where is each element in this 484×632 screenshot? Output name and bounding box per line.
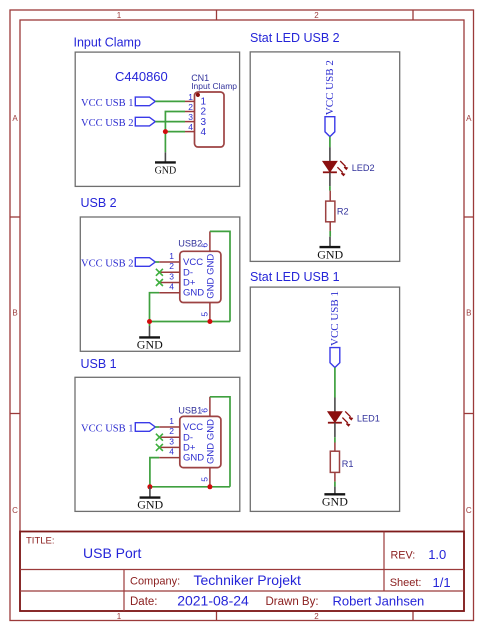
svg-text:4: 4 (169, 282, 174, 292)
svg-text:GND: GND (205, 443, 216, 464)
frame tick bottom x=216.5 (216, 611, 218, 621)
svg-text:1: 1 (188, 92, 193, 102)
wire LED1 to R1 (334, 437, 336, 442)
svg-text:1: 1 (169, 416, 174, 426)
svg-text:1: 1 (169, 251, 174, 261)
connector USB1 body (180, 416, 221, 467)
connector CN1 body (195, 92, 225, 147)
svg-text:1/1: 1/1 (433, 575, 451, 590)
USB2 pin 6 stub top (209, 231, 211, 251)
svg-text:USB2: USB2 (178, 238, 202, 248)
svg-text:USB 2: USB 2 (81, 196, 117, 210)
svg-text:2: 2 (314, 11, 319, 20)
svg-text:GND: GND (155, 166, 177, 177)
no-connect X USB1 pin3 (156, 444, 163, 451)
svg-text:A: A (12, 114, 18, 123)
svg-text:TITLE:: TITLE: (26, 536, 55, 547)
wire label1 to CN1 pin1 (155, 100, 185, 102)
svg-text:A: A (466, 114, 472, 123)
svg-text:GND: GND (322, 495, 348, 509)
USB1 pin 2 stub (159, 436, 180, 438)
R1 top pin (334, 443, 336, 452)
USB2 pin 4 stub (159, 292, 180, 294)
svg-text:1: 1 (117, 612, 122, 621)
junction USB1 gnd left (147, 484, 152, 489)
USB1 pin 1 stub (159, 426, 180, 428)
title block divider row2/row3 (20, 590, 464, 592)
hierarchical label VCC USB 2 (input clamp) (81, 117, 155, 129)
svg-text:3: 3 (188, 112, 193, 122)
svg-text:GND: GND (137, 498, 163, 512)
frame tick top x=413 (412, 10, 414, 20)
wire USB2 bottom bus (150, 321, 231, 323)
svg-text:GND: GND (183, 288, 204, 299)
wire label to USB2 pin1 (155, 261, 159, 263)
R1 bottom pin (334, 472, 336, 481)
no-connect X USB2 pin2 (156, 269, 163, 276)
svg-text:USB Port: USB Port (83, 545, 141, 561)
frame tick left y=217 (10, 216, 20, 218)
wire USB2 right side to pin6 (210, 231, 230, 321)
hierarchical label VCC USB 1 (led1, vertical) (329, 291, 341, 368)
hierarchical label VCC USB 2 (usb2) (81, 258, 155, 270)
connector CN1 pin1 indicator dot (196, 93, 200, 97)
frame tick top x=216.5 (216, 10, 218, 20)
USB2 pin 2 stub (159, 271, 180, 273)
svg-text:4: 4 (201, 127, 207, 138)
CN1 pin 4 stub (185, 131, 195, 133)
junction USB2 gnd left (147, 319, 152, 324)
frame tick left y=413.5 (10, 413, 20, 415)
svg-text:6: 6 (200, 243, 210, 248)
wire label2 to CN1 pin3 (155, 121, 185, 123)
ground GND (usb1) (137, 487, 163, 512)
svg-text:GND: GND (205, 254, 216, 275)
wire USB2 gnd drop (149, 322, 151, 327)
wire USB1 pin4 to gnd (150, 458, 159, 487)
section box Stat LED USB 1 (250, 287, 399, 511)
svg-text:4: 4 (188, 122, 193, 132)
section box Input Clamp (75, 52, 239, 186)
CN1 pin 2 stub (185, 111, 195, 113)
R2 top pin (329, 191, 331, 201)
svg-text:Date:: Date: (130, 596, 158, 608)
svg-text:LED2: LED2 (352, 163, 375, 173)
ground GND (usb2) (137, 326, 163, 351)
USB1 pin 4 stub (159, 457, 180, 459)
hierarchical label VCC USB 1 (input clamp) (81, 97, 155, 109)
svg-text:Company:: Company: (130, 576, 180, 588)
svg-text:Stat LED USB 2: Stat LED USB 2 (250, 31, 340, 45)
R2 bottom pin (329, 222, 331, 231)
wire label to LED2 anode (329, 137, 331, 148)
svg-text:5: 5 (200, 477, 210, 482)
resistor R2 body (326, 201, 335, 222)
svg-text:VCC USB 1: VCC USB 1 (81, 423, 134, 434)
wire label to USB1 pin1 (155, 426, 159, 428)
title block divider row1/row2 (20, 569, 464, 571)
connector USB2 body (180, 251, 221, 302)
no-connect X USB1 pin2 (156, 434, 163, 441)
section box USB 1 (75, 377, 240, 511)
title block outline (20, 532, 464, 612)
junction USB1 pin5 (207, 484, 212, 489)
svg-text:GND: GND (205, 278, 216, 299)
svg-text:GND: GND (205, 419, 216, 440)
LED1 anode pin (334, 398, 336, 412)
svg-text:VCC USB 2: VCC USB 2 (81, 258, 134, 269)
svg-text:GND: GND (317, 247, 343, 261)
junction input clamp gnd (163, 129, 168, 134)
LED D1 symbol (328, 411, 352, 425)
svg-text:VCC USB 2: VCC USB 2 (81, 118, 134, 129)
svg-text:4: 4 (169, 447, 174, 457)
svg-text:C: C (12, 506, 18, 515)
svg-text:REV:: REV: (391, 550, 416, 562)
svg-text:R1: R1 (342, 459, 354, 469)
LED1 cathode pin (334, 423, 336, 438)
USB1 pin 6 stub top (209, 397, 211, 417)
CN1 pin 1 stub (185, 100, 195, 102)
title block vertical divider x=124 (123, 570, 125, 612)
svg-text:B: B (12, 308, 17, 317)
wire USB2 pin4 to gnd (150, 293, 160, 322)
wire USB1 bottom bus (150, 486, 230, 488)
section box USB 2 (80, 217, 240, 351)
USB1 pin 3 stub (159, 446, 180, 448)
USB2 pin 5 stub bottom (209, 303, 211, 322)
svg-text:Sheet:: Sheet: (390, 577, 422, 589)
ground GND (led2) (317, 237, 343, 262)
svg-text:2: 2 (169, 426, 174, 436)
wire label to LED1 anode (334, 368, 336, 398)
svg-text:USB 1: USB 1 (81, 357, 117, 371)
LED2 cathode pin (329, 172, 331, 186)
svg-text:R2: R2 (337, 207, 349, 217)
svg-text:GND: GND (183, 453, 204, 464)
svg-text:C: C (466, 506, 472, 515)
svg-text:6: 6 (200, 408, 210, 413)
LED D2 symbol (323, 161, 347, 175)
junction USB2 pin5 (207, 319, 212, 324)
svg-text:LED1: LED1 (357, 413, 380, 423)
USB1 pin 5 stub bottom (209, 468, 211, 487)
svg-text:1.0: 1.0 (428, 547, 446, 562)
CN1 pin 3 stub (185, 121, 195, 123)
svg-text:1: 1 (117, 11, 122, 20)
svg-text:VCC USB 1: VCC USB 1 (81, 98, 134, 109)
resistor R1 body (330, 451, 339, 472)
svg-text:Input Clamp: Input Clamp (191, 81, 237, 91)
svg-text:2: 2 (314, 612, 319, 621)
wire gnd column down (164, 132, 166, 153)
svg-text:USB1: USB1 (178, 406, 202, 416)
LED2 anode pin (329, 147, 331, 161)
svg-text:Input Clamp: Input Clamp (74, 35, 141, 49)
wire CN1 pin4 to gnd column (165, 131, 185, 133)
USB2 pin 1 stub (159, 261, 180, 263)
frame tick bottom x=413 (412, 611, 414, 621)
svg-text:B: B (466, 308, 471, 317)
wire R2 to gnd (329, 231, 331, 237)
frame tick right y=217 (464, 216, 474, 218)
svg-text:3: 3 (169, 436, 174, 446)
svg-text:VCC USB 1: VCC USB 1 (329, 291, 341, 346)
svg-text:5: 5 (200, 312, 210, 317)
USB2 pin 3 stub (159, 282, 180, 284)
svg-text:2021-08-24: 2021-08-24 (177, 593, 249, 609)
svg-text:3: 3 (169, 271, 174, 281)
section box Stat LED USB 2 (250, 52, 400, 262)
title block vertical divider x=384 (383, 532, 385, 592)
svg-text:Techniker Projekt: Techniker Projekt (194, 572, 301, 588)
svg-text:Stat LED USB 1: Stat LED USB 1 (250, 270, 340, 284)
frame tick right y=413.5 (464, 413, 474, 415)
svg-text:VCC USB 2: VCC USB 2 (324, 60, 336, 115)
wire R1 to gnd (334, 482, 336, 487)
svg-text:2: 2 (188, 102, 193, 112)
hierarchical label VCC USB 2 (led2, vertical) (324, 60, 336, 136)
wire CN1 pin2 to gnd column (165, 112, 185, 132)
wire USB1 right side to pin6 (210, 397, 230, 487)
svg-text:Drawn By:: Drawn By: (266, 596, 319, 608)
wire LED2 to R2 (329, 186, 331, 191)
svg-text:C440860: C440860 (115, 69, 168, 84)
hierarchical label VCC USB 1 (usb1) (81, 423, 155, 435)
svg-text:Robert Janhsen: Robert Janhsen (333, 594, 425, 609)
svg-text:2: 2 (169, 261, 174, 271)
ground GND (led1) (322, 487, 348, 509)
svg-text:GND: GND (137, 337, 163, 351)
no-connect X USB2 pin3 (156, 279, 163, 286)
ground GND (input clamp) (155, 152, 177, 176)
